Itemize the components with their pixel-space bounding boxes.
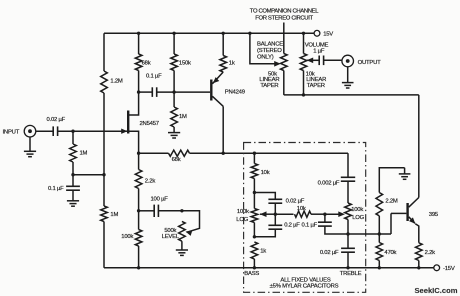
- transistor Q2 PN4249 PNP: [211, 72, 244, 106]
- node collector/68k feedback junction: [222, 152, 225, 155]
- capacitor 0.1 uF input bypass: [48, 175, 80, 201]
- node rail/volume: [302, 32, 305, 35]
- node bass/bottom rail: [253, 266, 256, 269]
- wire 470k to bottom rail: [378, 261, 380, 268]
- resistor 470k: [376, 243, 397, 261]
- wire 10k to 0.1uF node: [311, 213, 325, 215]
- label TREBLE: [340, 271, 362, 277]
- node bass top junction: [253, 191, 256, 194]
- svg-text:BALANCE: BALANCE: [257, 42, 283, 48]
- wire 1M to bottom rail corner: [103, 222, 105, 268]
- svg-text:100 µF: 100 µF: [151, 197, 169, 203]
- resistor 1k bass lower: [251, 242, 266, 259]
- svg-text:0.02 µF: 0.02 µF: [47, 117, 66, 123]
- wire balance wiper from rail: [250, 33, 279, 64]
- svg-text:0.1 µF: 0.1 µF: [48, 186, 64, 192]
- wire bottom rail: [104, 267, 434, 269]
- svg-text:LOG: LOG: [352, 215, 364, 221]
- node base bias junction: [172, 90, 175, 93]
- svg-text:1k: 1k: [229, 61, 235, 67]
- svg-text:500k: 500k: [164, 228, 176, 234]
- wire 0.002uF to treble pot: [347, 181, 349, 203]
- svg-text:1k: 1k: [260, 249, 266, 255]
- svg-text:15V: 15V: [323, 32, 333, 38]
- wire companion channel to rail/balance: [283, 23, 285, 34]
- resistor 1M (input): [70, 144, 88, 162]
- wire rail to 1k: [222, 33, 224, 55]
- node wiper/0.1uF junction: [323, 213, 326, 216]
- svg-text:1M: 1M: [110, 212, 118, 218]
- svg-text:(STEREO: (STEREO: [257, 48, 282, 54]
- svg-text:0.1 µF: 0.1 µF: [146, 74, 162, 80]
- node rail/150k: [172, 32, 175, 35]
- wire base line to 470k/2.2M column: [348, 233, 379, 235]
- arrow level pot wiper: [186, 231, 193, 236]
- wire source to 2.2k: [138, 153, 140, 169]
- capacitor 0.02 uF input coupling: [47, 117, 66, 136]
- svg-text:2.2M: 2.2M: [385, 199, 398, 205]
- wire base riser: [390, 213, 392, 234]
- label BASS: [244, 271, 259, 277]
- wire 0.1uF to 150k node: [157, 91, 174, 93]
- ground 0.1uF bypass: [67, 201, 79, 206]
- capacitor 0.02 uF bass: [268, 199, 304, 205]
- svg-text:100k: 100k: [237, 209, 249, 215]
- svg-text:SeekIC.com: SeekIC.com: [414, 286, 457, 295]
- boundary tone-control dashed box: [244, 143, 366, 293]
- potentiometer 10k VOLUME: [300, 33, 328, 95]
- wire node to 100uF: [139, 210, 155, 212]
- wire 1uF to output jack: [324, 59, 342, 61]
- label SeekIC.com watermark: [414, 286, 457, 295]
- wire 1M to ground: [173, 127, 175, 133]
- wire input jack to coupling cap: [36, 130, 53, 132]
- svg-text:TREBLE: TREBLE: [340, 271, 362, 277]
- connector INPUT jack: [24, 125, 36, 137]
- arrow volume wiper: [307, 58, 314, 64]
- wire tone input across box: [254, 152, 348, 154]
- wire tone input to 0.002uF: [347, 153, 349, 177]
- wire junction to 1M: [103, 175, 105, 206]
- svg-text:ONLY): ONLY): [257, 55, 274, 61]
- wire 2.2k to node: [138, 189, 140, 211]
- svg-text:100k: 100k: [351, 207, 363, 213]
- resistor 150k bias upper: [171, 54, 191, 71]
- svg-text:1M: 1M: [80, 151, 88, 157]
- wire level pot to ground: [181, 241, 183, 250]
- node 470k/2.2M/base junction: [378, 232, 381, 235]
- node rail/1k: [222, 32, 225, 35]
- svg-text:2.2k: 2.2k: [145, 179, 156, 185]
- wire 100k to bottom rail: [138, 246, 140, 268]
- wire 1M to 0.1uF node: [72, 162, 74, 175]
- svg-text:VOLUME: VOLUME: [305, 42, 329, 48]
- wire 2.2M top to ground: [379, 168, 404, 193]
- capacitor 100 uF: [151, 197, 169, 218]
- node 2.2k/100k/100uF junction: [137, 209, 140, 212]
- svg-text:LOG: LOG: [236, 217, 248, 223]
- svg-text:0.002 µF: 0.002 µF: [318, 181, 340, 187]
- wire source node to 68k: [139, 152, 169, 154]
- svg-text:0.02 µF: 0.02 µF: [320, 250, 339, 256]
- svg-text:10k: 10k: [297, 206, 306, 212]
- svg-text:FOR STEREO CIRCUIT: FOR STEREO CIRCUIT: [255, 16, 313, 22]
- svg-text:ALL FIXED VALUES: ALL FIXED VALUES: [280, 278, 330, 284]
- node treble/bottom rail: [346, 266, 349, 269]
- node input/1M junction: [71, 130, 74, 133]
- ground 1M bias: [168, 133, 180, 138]
- wire base line to corner: [379, 233, 391, 235]
- resistor 1M bias to ground: [171, 107, 187, 127]
- transistor Q3 395 NPN: [408, 198, 439, 243]
- svg-text:2N5457: 2N5457: [140, 121, 159, 127]
- connector OUTPUT jack: [342, 55, 381, 67]
- wire wiper node to bass wiper arrow: [260, 213, 275, 215]
- wire PN4249 collector drop: [222, 106, 224, 153]
- resistor 10k bass upper: [251, 164, 270, 179]
- svg-text:0.02 µF: 0.02 µF: [286, 199, 305, 205]
- node 100k/bottom rail: [137, 266, 140, 269]
- resistor 68k drain load: [135, 54, 150, 71]
- resistor 2.2k emitter: [416, 243, 436, 261]
- resistor 68k feedback: [169, 150, 190, 163]
- node volume-bottom junction: [302, 93, 305, 96]
- svg-text:-15V: -15V: [443, 266, 455, 272]
- svg-text:1 µF: 1 µF: [313, 49, 325, 55]
- potentiometer 500k LEVEL: [162, 221, 186, 241]
- wire 100uF to level pot: [158, 210, 182, 212]
- wire rail to 68k: [138, 33, 140, 54]
- resistor 2.2M bias: [376, 193, 398, 216]
- node bass wiper junction: [274, 213, 277, 216]
- resistor 1.2M: [101, 71, 123, 93]
- svg-text:PN4249: PN4249: [225, 90, 245, 96]
- wire 150k to bias node: [173, 71, 175, 93]
- wire volume wiper to cap: [307, 59, 320, 61]
- wire 2.2M to node: [378, 216, 380, 234]
- capacitor 0.1 uF tone: [302, 214, 332, 228]
- svg-text:LEVEL: LEVEL: [162, 234, 180, 240]
- svg-text:2.2k: 2.2k: [425, 250, 436, 256]
- wire feedback vertical: [418, 95, 420, 198]
- svg-text:OUTPUT: OUTPUT: [358, 60, 382, 66]
- capacitor 0.02 uF treble lower: [320, 234, 355, 256]
- wire bass node to 0.02uF: [254, 193, 275, 200]
- resistor 100k source lower: [121, 230, 142, 247]
- capacitor 0.1 uF interstage: [146, 74, 162, 97]
- resistor 2.2k source: [135, 170, 155, 189]
- wire 1.2M to junction: [103, 93, 105, 175]
- svg-text:BASS: BASS: [244, 271, 259, 277]
- ground input jack: [24, 137, 36, 157]
- potentiometer 50k BALANCE: [257, 33, 287, 95]
- potentiometer 100k LOG bass: [236, 193, 257, 237]
- transistor Q1 2N5457 JFET: [121, 92, 159, 153]
- resistor 1M (bias lower): [101, 206, 119, 222]
- ground 500k level pot: [176, 250, 188, 255]
- node bass bottom junction: [253, 235, 256, 238]
- svg-text:68k: 68k: [142, 60, 151, 66]
- wire top +15V supply rail: [104, 32, 314, 34]
- arrow treble wiper: [338, 211, 345, 217]
- svg-text:68k: 68k: [172, 157, 181, 163]
- capacitor 0.2 uF bass: [268, 214, 300, 229]
- wire node to treble wiper arrow: [325, 213, 343, 215]
- arrow bass wiper: [260, 211, 267, 217]
- wire collector node into tone box: [223, 152, 254, 154]
- wire 10k to bass node: [253, 179, 255, 193]
- resistor 1k emitter load: [220, 56, 235, 73]
- wire left rail drop (top rail to 1.2M): [103, 33, 105, 71]
- svg-text:470k: 470k: [384, 250, 396, 256]
- node rail/balance-left: [248, 32, 251, 35]
- wire 0.2uF to bass bottom: [254, 229, 275, 237]
- ground 2.2M bias: [399, 168, 411, 180]
- svg-text:±5% MYLAR CAPACITORS: ±5% MYLAR CAPACITORS: [270, 284, 339, 290]
- wire bias node to 1M: [173, 92, 175, 107]
- node treble bottom junction: [346, 232, 349, 235]
- node 1M/0.1uF junction: [71, 173, 74, 176]
- svg-text:1.2M: 1.2M: [110, 79, 123, 85]
- node tone box input (10k top): [253, 152, 256, 155]
- svg-text:100k: 100k: [121, 234, 133, 240]
- node 470k/bottom rail: [378, 266, 381, 269]
- wire 2.2k to bottom rail: [418, 261, 420, 268]
- svg-text:0.1 µF: 0.1 µF: [302, 223, 318, 229]
- svg-text:150k: 150k: [179, 60, 191, 66]
- svg-text:10k: 10k: [261, 170, 270, 176]
- wire 0.02uF to wiper node: [274, 203, 276, 214]
- wire node to 470k: [378, 234, 380, 243]
- node 100uF/level pot junction: [180, 209, 183, 212]
- wire treble cap to bottom rail: [347, 252, 349, 268]
- terminal +15V supply: [314, 30, 333, 37]
- wire bias node to base: [174, 91, 210, 93]
- wire node to 100k: [138, 211, 140, 230]
- wire 0.1uF to base line: [325, 226, 348, 234]
- wire 1k to bottom rail: [253, 259, 255, 268]
- node junction 1.2M/1M/0.1uF link: [102, 173, 105, 176]
- label INPUT: [3, 130, 20, 136]
- terminal -15V supply: [434, 265, 455, 272]
- wire drain node to 0.1uF: [139, 91, 153, 93]
- wire 68k to collector node: [190, 152, 224, 154]
- arrow balance wiper: [274, 61, 281, 67]
- capacitor 1 uF output: [319, 56, 323, 66]
- svg-text:TO COMPANION CHANNEL: TO COMPANION CHANNEL: [250, 8, 319, 14]
- potentiometer 100k LOG treble: [345, 203, 365, 234]
- wire coupling cap to gate: [58, 130, 123, 132]
- wire level pot wiper loop: [182, 211, 200, 233]
- label to-companion-channel: [250, 8, 319, 21]
- svg-text:1M: 1M: [179, 114, 187, 120]
- wire wiper node to 10k: [275, 213, 293, 215]
- node drain/coupling junction: [137, 90, 140, 93]
- capacitor 0.002 uF treble: [318, 177, 356, 186]
- node rail/68k: [137, 32, 140, 35]
- wire base to Q3: [391, 212, 406, 214]
- wire pot-bottom line: [284, 94, 419, 96]
- wire 68k to drain node: [138, 71, 140, 93]
- ground output jack: [342, 67, 354, 88]
- wire junction link to 1.2M column: [73, 174, 104, 176]
- svg-text:TAPER: TAPER: [307, 83, 325, 89]
- node source/feedback junction: [137, 152, 140, 155]
- node 2.2k/bottom rail: [417, 266, 420, 269]
- wire rail to 150k: [173, 33, 175, 54]
- wire input node to 1M: [72, 131, 74, 144]
- label all fixed values: [270, 278, 339, 290]
- svg-text:395: 395: [429, 212, 439, 218]
- svg-text:TAPER: TAPER: [260, 83, 278, 89]
- svg-text:0.2 µF: 0.2 µF: [284, 223, 300, 229]
- resistor 10k tone wiper: [295, 206, 312, 217]
- wire tone node to 10k: [253, 153, 255, 163]
- svg-text:INPUT: INPUT: [3, 130, 20, 136]
